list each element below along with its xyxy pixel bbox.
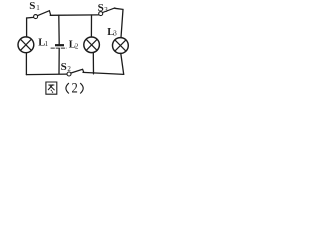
switch S3: [99, 12, 103, 16]
svg-text:2: 2: [75, 42, 79, 50]
lamp L1: [18, 37, 34, 53]
svg-text:2: 2: [72, 80, 78, 96]
switch S3 lever: [103, 8, 115, 13]
svg-text:S: S: [29, 0, 35, 12]
wire middle branch lower: [58, 49, 60, 74]
wire top-right corner: [115, 8, 123, 37]
wire middle branch upper: [58, 15, 60, 44]
wire left-bottom: [25, 53, 27, 75]
battery cell: long thin plate: [51, 47, 67, 49]
svg-text:S: S: [98, 2, 104, 14]
battery cell: short thick plate: [55, 44, 64, 46]
wire L2 branch lower: [92, 53, 94, 74]
svg-text:3: 3: [104, 6, 108, 14]
switch S1: [34, 15, 38, 19]
caption fullwidth paren close: [80, 83, 83, 93]
caption: hanzi TU (figure) drawn as strokes: [46, 82, 83, 94]
caption fullwidth paren open: [66, 83, 69, 93]
svg-text:S: S: [61, 61, 67, 73]
svg-text:3: 3: [113, 29, 117, 37]
lamp L3: [113, 38, 129, 54]
wire bottom-right from S2: [83, 72, 124, 74]
wire top middle: [50, 14, 98, 16]
svg-text:1: 1: [45, 40, 49, 48]
svg-text:2: 2: [67, 65, 71, 73]
switch S2: [67, 72, 71, 76]
wire L2 branch upper: [90, 15, 92, 37]
wire bottom-left to S2: [26, 73, 67, 76]
wire right-bottom: [121, 54, 124, 75]
switch S1 lever: [38, 11, 51, 16]
wire top-left corner to S1: [27, 17, 34, 37]
lamp L2: [84, 37, 100, 53]
switch S2 lever: [71, 69, 84, 73]
svg-text:1: 1: [36, 4, 40, 12]
